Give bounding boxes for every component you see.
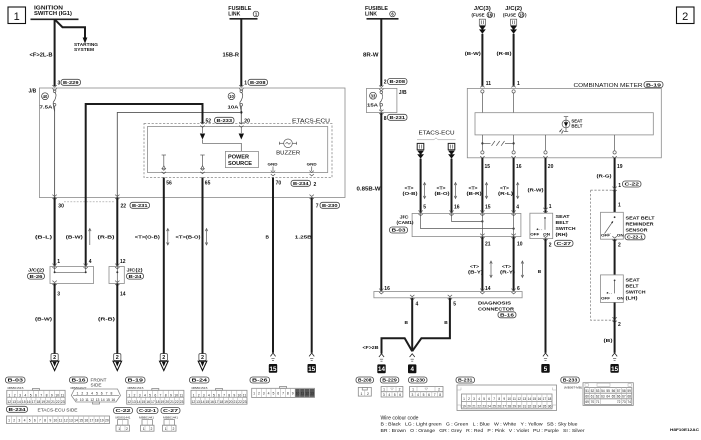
wire (B-W) J/C pin4 up (85, 198, 87, 267)
thick feed wire pin 4 to ETACS pin 52 (86, 104, 203, 198)
svg-text:16: 16 (454, 205, 460, 211)
svg-text:20: 20 (548, 164, 554, 170)
svg-text:7: 7 (493, 397, 495, 401)
pin 2 label B-234 (291, 180, 317, 188)
svg-text:6: 6 (428, 393, 430, 397)
svg-text:10: 10 (174, 393, 178, 397)
svg-text:52: 52 (206, 118, 212, 124)
svg-text:21: 21 (170, 400, 174, 404)
svg-text:B-03: B-03 (8, 378, 24, 383)
option dashed group box (591, 190, 615, 320)
page arrow 2 on (B-W) wire (51, 354, 58, 361)
pin 52 label B-233 (206, 117, 235, 124)
page arrow 2 on <T>(O-B) wire (160, 354, 167, 361)
pin 65 internal stub (200, 155, 204, 174)
svg-text:60: 60 (585, 395, 589, 399)
harness end 14 (377, 354, 385, 373)
J/C (CAM1) label (390, 214, 414, 233)
svg-text:19: 19 (41, 400, 45, 404)
svg-text:14: 14 (120, 292, 126, 298)
svg-text:(B-R): (B-R) (467, 191, 483, 196)
svg-text:21: 21 (51, 400, 55, 404)
page arrow 2 on (R-B) wire (114, 354, 121, 361)
svg-text:J/B: J/B (29, 89, 37, 95)
svg-text:22: 22 (238, 400, 242, 404)
J/C B-26 pin 1 (52, 259, 60, 269)
svg-text:15: 15 (485, 205, 491, 211)
svg-text:B-26: B-26 (252, 378, 268, 383)
wire sensor to switch LH (614, 239, 616, 275)
svg-text:GND: GND (307, 163, 317, 167)
svg-text:12: 12 (120, 259, 126, 265)
meter internal wire pin15 (481, 135, 483, 151)
svg-text:H8F10E12AC: H8F10E12AC (670, 427, 699, 432)
svg-text:68: 68 (627, 395, 631, 399)
svg-text:1: 1 (549, 204, 552, 210)
svg-text:(R-W): (R-W) (528, 187, 544, 193)
dashed link pin30-pin22 (64, 201, 114, 203)
svg-text:3: 3 (58, 80, 61, 86)
svg-text:1: 1 (253, 392, 255, 396)
wire ignition to starting system (55, 19, 85, 38)
fusible link 6 label (365, 6, 395, 18)
svg-text:4: 4 (144, 393, 146, 397)
svg-text:4: 4 (89, 259, 92, 265)
svg-text:23: 23 (482, 405, 486, 409)
svg-text:B-230: B-230 (411, 378, 426, 383)
svg-text:MB801515: MB801515 (8, 386, 24, 390)
svg-text:8R-W: 8R-W (363, 53, 379, 59)
svg-text:14: 14 (17, 400, 21, 404)
svg-text:B-208: B-208 (250, 80, 266, 85)
wire meter pin19 to sensor (614, 190, 616, 212)
svg-text:74: 74 (627, 400, 631, 404)
svg-text:2: 2 (438, 388, 440, 392)
svg-text:24: 24 (487, 405, 491, 409)
svg-text:12: 12 (64, 418, 68, 422)
svg-text:J/C(2): J/C(2) (28, 268, 45, 273)
svg-text:2: 2 (126, 427, 128, 431)
svg-text:(R-L): (R-L) (498, 191, 514, 196)
svg-text:18: 18 (95, 418, 99, 422)
wire (B-L) pin30 to J/C B-26 pin1 (54, 198, 56, 267)
svg-text:BELT: BELT (556, 220, 569, 226)
svg-text:27: 27 (502, 405, 506, 409)
svg-text:1: 1 (412, 388, 414, 392)
svg-text:(LH): (LH) (626, 295, 638, 301)
svg-text:1: 1 (383, 388, 385, 392)
label <T>(B-Y) (468, 264, 484, 275)
svg-text:15: 15 (205, 400, 209, 404)
svg-text:28: 28 (507, 405, 511, 409)
svg-text:(B-W): (B-W) (35, 317, 53, 323)
svg-text:15A: 15A (367, 103, 379, 109)
svg-text:10: 10 (517, 241, 523, 247)
svg-text:11: 11 (180, 393, 184, 397)
svg-text:18: 18 (156, 400, 160, 404)
svg-text:B: B (538, 269, 542, 275)
svg-text:36: 36 (548, 405, 552, 409)
svg-text:9: 9 (51, 393, 53, 397)
svg-text:4: 4 (478, 397, 480, 401)
svg-text:B-208: B-208 (358, 378, 372, 383)
meter internal wire pin20 (545, 135, 547, 151)
svg-text:B-03: B-03 (392, 228, 407, 233)
svg-text:10: 10 (55, 393, 59, 397)
diagnosis exit pin numbers (416, 302, 457, 308)
label <T>(R-Y) (500, 264, 516, 275)
svg-text:2: 2 (618, 322, 621, 328)
svg-text:2: 2 (162, 355, 165, 361)
svg-text:20: 20 (244, 118, 250, 124)
svg-text:B-16: B-16 (500, 313, 515, 318)
svg-text:16: 16 (516, 164, 522, 170)
ETACS-ECU dashed boundary (144, 124, 332, 178)
svg-text:12: 12 (7, 400, 11, 404)
svg-text:7: 7 (39, 418, 41, 422)
svg-text:5: 5 (544, 366, 548, 373)
svg-text:LINK: LINK (228, 12, 240, 18)
svg-text:Wire colour code: Wire colour code (381, 415, 419, 421)
svg-text:25: 25 (492, 405, 496, 409)
seat belt reminder sensor box (601, 212, 624, 239)
svg-text:4: 4 (208, 393, 210, 397)
J/C CAM1 through wire pin15 (481, 213, 483, 236)
svg-text:6: 6 (154, 393, 156, 397)
fusible link 1 bus bar (230, 18, 258, 20)
svg-text:12: 12 (127, 400, 131, 404)
svg-text:<T>: <T> (470, 264, 479, 269)
svg-text:9: 9 (49, 418, 51, 422)
svg-text:2: 2 (116, 355, 119, 361)
svg-text:B-26: B-26 (30, 274, 44, 279)
svg-text:7.5A: 7.5A (40, 105, 54, 111)
svg-text:1: 1 (57, 259, 60, 265)
wire 0.85B-W down to diagnosis (380, 113, 382, 292)
starting system arrow (83, 38, 88, 44)
svg-text:16: 16 (538, 397, 542, 401)
meter internal wire pin19 (614, 135, 616, 151)
svg-text:(B-L): (B-L) (35, 235, 53, 241)
J/C(2) B-24 box (109, 267, 124, 284)
svg-text:6: 6 (101, 392, 103, 396)
J/C CAM1 exit crossings (480, 234, 516, 239)
connector B-26 label (250, 377, 270, 383)
wire 1.25B pin 2/7 to ground (311, 198, 313, 353)
svg-text:1: 1 (165, 427, 167, 431)
crossing pin 7 at J/B bottom (310, 195, 314, 200)
svg-text:J/C(3): J/C(3) (474, 6, 491, 12)
pin 7 label B-230 (316, 202, 340, 209)
wire (B-R) meter pin15 to J/C pin 15 (481, 158, 483, 213)
svg-text:1: 1 (463, 397, 465, 401)
svg-text:63: 63 (601, 395, 605, 399)
svg-text:3: 3 (411, 393, 413, 397)
svg-text:2: 2 (258, 392, 260, 396)
svg-text:1: 1 (128, 393, 130, 397)
connector B-230 pin table bottom (410, 387, 443, 398)
sensor contact (605, 216, 616, 233)
meter pin 16 exit terminal (511, 151, 515, 158)
svg-text:(MB06T-MB): (MB06T-MB) (564, 385, 582, 389)
svg-text:18: 18 (219, 400, 223, 404)
connector B-208 pin 1 (244, 79, 267, 86)
crossing pin 22 at J/B bottom (115, 195, 119, 200)
connector B-24 label (190, 377, 210, 383)
direction arrows (O-B) right (424, 183, 426, 199)
svg-text:22: 22 (477, 405, 481, 409)
svg-text:C-22: C-22 (625, 182, 640, 187)
svg-text:70: 70 (591, 400, 595, 404)
buzzer symbol (279, 139, 296, 148)
svg-text:9: 9 (292, 392, 294, 396)
crossing into J/B right (379, 86, 383, 91)
svg-text:BUZZER: BUZZER (276, 151, 300, 157)
svg-text:17: 17 (215, 400, 219, 404)
svg-text:13: 13 (12, 400, 16, 404)
svg-text:8: 8 (46, 393, 48, 397)
J/C(2) B-26 label (28, 268, 45, 279)
svg-text:16: 16 (210, 400, 214, 404)
svg-text:OFF: OFF (530, 233, 540, 237)
svg-text:2: 2 (399, 388, 401, 392)
meter pin 1 terminal (511, 86, 515, 113)
J/B right box (367, 88, 397, 112)
svg-text:52: 52 (591, 389, 595, 393)
svg-text:(B-O): (B-O) (435, 191, 451, 196)
resistor between lamp branches (481, 141, 514, 146)
svg-text:62: 62 (596, 395, 600, 399)
connector B-233 pin table (583, 383, 633, 406)
svg-text:SWITCH: SWITCH (556, 226, 577, 232)
svg-text:2: 2 (151, 427, 153, 431)
wire B switch RH to ground (545, 239, 547, 353)
svg-text:(O-B): (O-B) (403, 191, 419, 196)
J/C(2) B-26 box (50, 267, 94, 284)
wire fuse 40 to pin 30 (54, 106, 56, 198)
J/C CAM1 exit pin numbers (485, 241, 523, 247)
combination meter label B-19 (644, 82, 663, 88)
svg-text:<T>(B-O): <T>(B-O) (176, 235, 201, 241)
ETACS-ECU inner box (148, 127, 328, 173)
svg-text:14: 14 (137, 400, 141, 404)
wire 2L-B ignition down (54, 19, 56, 86)
svg-text:3: 3 (473, 397, 475, 401)
svg-text:57: 57 (617, 389, 621, 393)
J/C B-26 pin 3 (52, 281, 60, 298)
J/C CAM1 box (412, 213, 521, 236)
svg-text:11: 11 (513, 397, 517, 401)
svg-text:SEAT: SEAT (556, 214, 570, 220)
svg-text:<T>: <T> (500, 185, 509, 190)
wire <T>(R-Y) pin10 down (513, 237, 515, 292)
wire 15B-R down (240, 19, 242, 86)
svg-text:59: 59 (627, 389, 631, 393)
svg-text:32: 32 (528, 405, 532, 409)
svg-text:10: 10 (507, 397, 511, 401)
svg-text:COMBINATION METER: COMBINATION METER (574, 83, 643, 89)
crossing into J/B at B-208 (239, 85, 243, 90)
connector B-03 label (6, 377, 26, 383)
svg-text:6: 6 (34, 418, 36, 422)
page arrow 2 on <T>(B-O) wire (199, 354, 206, 361)
meter pin 11 terminal (480, 86, 484, 113)
svg-text:SENSOR: SENSOR (626, 227, 649, 233)
svg-text:GND: GND (268, 163, 278, 167)
connector C-22 label (114, 408, 133, 414)
svg-text:2: 2 (173, 427, 175, 431)
svg-text:13: 13 (96, 398, 100, 402)
svg-text:2: 2 (81, 392, 83, 396)
svg-text:5: 5 (29, 418, 31, 422)
svg-text:B-229: B-229 (63, 80, 79, 85)
connector B-229 label bottom (380, 377, 399, 383)
wire (B-W) J/C B-26 pin3 down (54, 284, 56, 354)
svg-text:4: 4 (24, 393, 26, 397)
svg-text:2: 2 (384, 80, 387, 86)
pin 2 GND stub (307, 163, 317, 176)
wire fuse 10 to ETACS pin 20 (240, 106, 242, 124)
svg-text:20: 20 (165, 400, 169, 404)
ground 15 right (612, 353, 617, 356)
svg-text:J/B: J/B (399, 90, 407, 96)
svg-text:OFF: OFF (601, 296, 611, 300)
internal bus diodes to power source (203, 140, 242, 152)
svg-text:9: 9 (170, 393, 172, 397)
seat belt switch LH caption (626, 277, 647, 301)
svg-text:14: 14 (201, 400, 205, 404)
crossing pin 20 (239, 122, 243, 127)
belt switch RH pin 2 and C-27 (543, 236, 573, 249)
connector C-27 label (161, 408, 180, 414)
svg-text:20: 20 (46, 400, 50, 404)
switch LH OFF ON text (601, 296, 624, 300)
svg-text:10: 10 (229, 94, 234, 99)
svg-text:ON: ON (617, 296, 624, 300)
ETACS-ECU brace (417, 138, 456, 140)
switch LH pin 2 crossing (612, 317, 621, 328)
svg-text:1: 1 (9, 393, 11, 397)
direction arrows at <T>(B-O) (206, 229, 208, 246)
svg-text:4: 4 (91, 392, 93, 396)
svg-text:(B): (B) (604, 338, 614, 344)
svg-text:3: 3 (18, 418, 20, 422)
svg-text:0.85B-W: 0.85B-W (357, 187, 381, 193)
connector C-22-1 label (137, 408, 158, 414)
svg-text:16: 16 (111, 398, 115, 402)
connector B-234 label (7, 406, 28, 412)
svg-text:10A: 10A (228, 105, 240, 111)
J/C(2) B-24 label (127, 268, 144, 279)
svg-text:7: 7 (160, 393, 162, 397)
svg-text:J/C(2): J/C(2) (505, 6, 522, 12)
svg-text:21: 21 (472, 405, 476, 409)
J/C B-26 internal bus (55, 267, 86, 273)
svg-text:6: 6 (35, 393, 37, 397)
svg-text:5: 5 (483, 397, 485, 401)
pin 70 GND stub (268, 163, 278, 176)
svg-text:69: 69 (585, 400, 589, 404)
svg-text:(CAM1): (CAM1) (397, 220, 414, 225)
ground 5 (543, 353, 548, 356)
svg-text:4: 4 (410, 366, 414, 373)
sheet number box 2 (677, 7, 695, 24)
svg-text:5: 5 (423, 393, 425, 397)
connector B-208 pin table bottom (358, 387, 371, 396)
svg-text:55: 55 (606, 389, 610, 393)
ignition switch (IG1) label (34, 6, 72, 18)
crossing pin 30 at J/B bottom (52, 195, 56, 200)
svg-text:OFF: OFF (601, 233, 611, 237)
svg-text:BELT: BELT (571, 124, 583, 129)
ignition switch bus bar (31, 18, 79, 20)
svg-text:(B-Y): (B-Y) (468, 270, 484, 275)
svg-text:C-22-1: C-22-1 (627, 235, 644, 240)
svg-text:33: 33 (533, 405, 537, 409)
svg-text:7: 7 (40, 393, 42, 397)
svg-text:2: 2 (14, 393, 16, 397)
seat belt lamp label (571, 119, 583, 129)
svg-text:1: 1 (193, 393, 195, 397)
crossing into J/B at B-229 (52, 85, 56, 90)
svg-text:<T>(O-B): <T>(O-B) (135, 235, 160, 241)
label <T>(O-B) right (403, 185, 419, 196)
svg-text:1: 1 (618, 203, 621, 209)
ETACS-ECU pin symbol left (417, 143, 424, 158)
seat belt switch RH caption (556, 214, 577, 238)
svg-text:6: 6 (488, 397, 490, 401)
svg-text:13: 13 (523, 397, 527, 401)
svg-text:14: 14 (528, 397, 532, 401)
svg-text:15: 15 (141, 400, 145, 404)
svg-text:DIAGNOSIS: DIAGNOSIS (478, 300, 512, 306)
svg-text:56: 56 (166, 181, 172, 187)
svg-text:2: 2 (367, 392, 369, 396)
svg-text:4: 4 (417, 393, 419, 397)
J/C(3) FUSE 16 label (472, 6, 496, 18)
svg-text:SEAT: SEAT (626, 277, 640, 283)
sheet number box 1 (8, 7, 26, 24)
svg-text:13: 13 (310, 392, 314, 396)
svg-text:3: 3 (203, 393, 205, 397)
svg-text:(R-B): (R-B) (497, 51, 512, 57)
svg-text:(RH): (RH) (556, 232, 568, 238)
J/C CAM1 entry crossings (418, 211, 515, 216)
diagnosis pin numbers above (384, 286, 520, 292)
connector B-26 pin table (252, 388, 315, 397)
wire branch to B-208 pin 14 (382, 338, 413, 353)
direction arrows (R-Y) (521, 261, 523, 278)
wire (R-W) meter pin20 to belt switch RH (545, 158, 547, 213)
fusible link 6 bus bar (367, 18, 399, 20)
svg-text:B-231: B-231 (458, 378, 473, 383)
svg-text:23: 23 (61, 400, 65, 404)
svg-text:54: 54 (601, 389, 605, 393)
svg-text:J/C(2): J/C(2) (127, 268, 144, 273)
svg-text:SOURCE: SOURCE (228, 161, 253, 167)
J/C(2) FUSE 13 label (503, 6, 527, 18)
svg-text:19: 19 (462, 405, 466, 409)
svg-text:19: 19 (100, 418, 104, 422)
connector B-16 pin table trapezoid (71, 389, 120, 404)
J/C CAM1 bus pin16 to pin15 (452, 213, 483, 221)
svg-text:67: 67 (622, 395, 626, 399)
svg-text:5: 5 (394, 393, 396, 397)
svg-text:16: 16 (27, 400, 31, 404)
svg-text:(R-G): (R-G) (597, 174, 612, 180)
wire (B-W) to meter pin 11 (481, 34, 483, 87)
svg-text:12: 12 (191, 400, 195, 404)
